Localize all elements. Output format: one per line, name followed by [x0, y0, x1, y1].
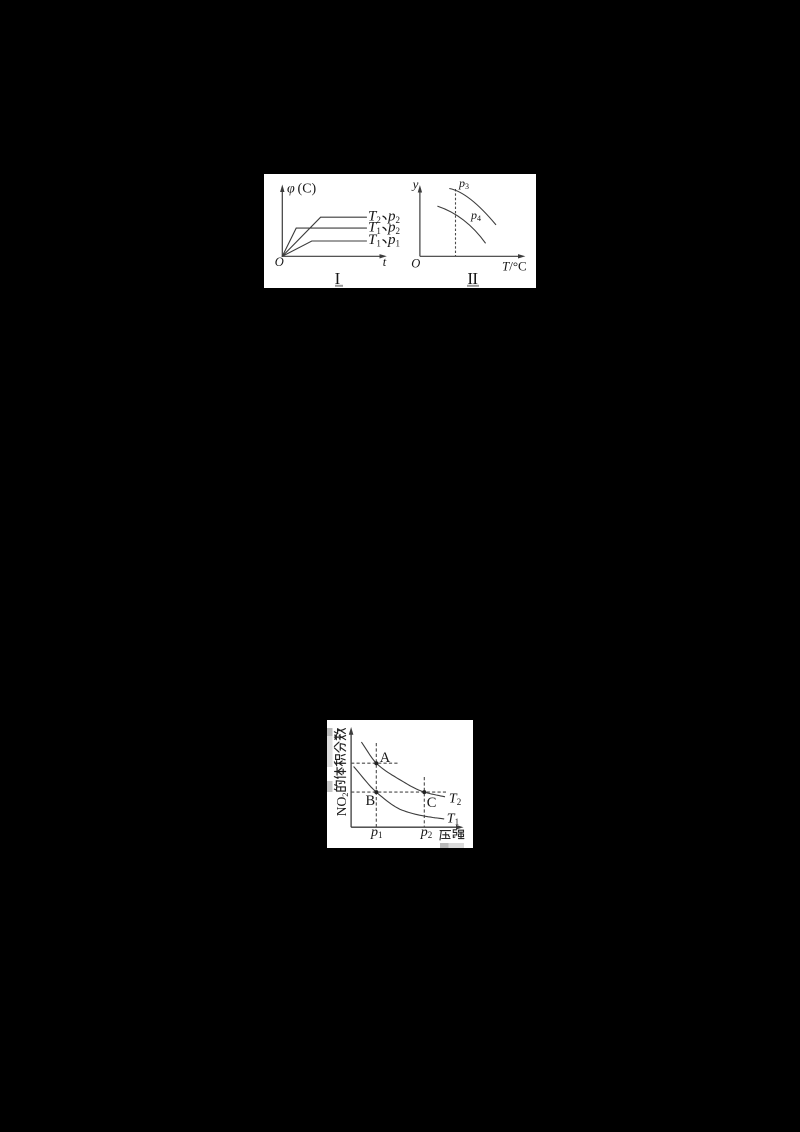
svg-text:p4: p4: [470, 208, 481, 223]
grey scan artifact strip left edge top: [327, 728, 333, 736]
curve T1,p2 (steep, middle plateau): [282, 228, 366, 256]
label T1,p1: [368, 232, 400, 249]
grey scan artifact strip left edge middle: [327, 736, 333, 767]
point C: [422, 790, 426, 794]
curve p4: [437, 206, 485, 243]
dashed vertical line graph II: [455, 189, 457, 256]
char 的: [334, 781, 345, 791]
svg-text:B: B: [365, 793, 375, 809]
svg-text:A: A: [380, 750, 391, 766]
svg-text:T2: T2: [449, 792, 461, 808]
char 数: [334, 729, 345, 740]
curve T1: [354, 767, 445, 820]
y-axis: [350, 733, 352, 827]
svg-text:I: I: [335, 269, 341, 287]
x-axis arrow graph II: [518, 254, 525, 258]
grey underline below I: [335, 285, 343, 287]
curve T1,p1 (bottom plateau): [282, 241, 366, 256]
grey underline below II: [467, 285, 479, 287]
char 体: [334, 768, 345, 779]
svg-text:T1: T1: [447, 811, 459, 827]
grey scan artifact bottom right light: [449, 843, 465, 848]
x-axis graph II: [420, 255, 522, 257]
curve T2: [361, 742, 445, 797]
dashed horizontal line through B and C: [351, 791, 446, 793]
y-axis arrow graph I: [280, 185, 284, 193]
x-axis: [351, 826, 460, 828]
char 积: [334, 754, 345, 765]
curve T2,p2 (top plateau): [282, 217, 366, 256]
dashed vertical line p1: [375, 743, 377, 827]
point A: [374, 761, 378, 765]
svg-text:NO2: NO2: [334, 793, 350, 817]
grey scan artifact bottom right dark: [440, 843, 449, 848]
dashed vertical line p2: [423, 777, 425, 827]
y-axis arrow graph II: [418, 185, 422, 193]
svg-text:t: t: [383, 255, 387, 269]
curve p3: [449, 189, 496, 225]
dashed horizontal line through A: [351, 762, 398, 764]
label pressure char 强: [453, 830, 464, 839]
svg-text:O: O: [411, 256, 420, 270]
grey scan artifact strip left edge lower: [327, 781, 333, 792]
svg-text:y: y: [411, 176, 419, 191]
label pressure char 压: [440, 831, 451, 840]
y-axis arrow: [349, 727, 354, 735]
svg-text:φ (C): φ (C): [287, 181, 317, 196]
svg-text:II: II: [467, 269, 478, 287]
panel 1: kinetics graphs I and II: [264, 174, 536, 288]
char 分: [334, 742, 345, 752]
x-axis arrow: [456, 825, 464, 830]
point B: [374, 790, 378, 794]
rotated y-axis label NO2 volume fraction: [334, 729, 350, 817]
svg-text:O: O: [275, 255, 284, 269]
y-axis graph II: [419, 191, 421, 256]
label T2,p2: [368, 209, 400, 226]
svg-text:C: C: [427, 795, 437, 811]
x-axis graph I: [282, 255, 383, 257]
x-axis arrow graph I: [380, 254, 387, 258]
svg-text:T/°C: T/°C: [502, 258, 527, 273]
label T1,p2: [368, 220, 400, 237]
y-axis graph I: [281, 190, 283, 256]
svg-text:p3: p3: [458, 176, 469, 191]
panel 2: NO2 volume fraction vs pressure: [327, 720, 473, 848]
